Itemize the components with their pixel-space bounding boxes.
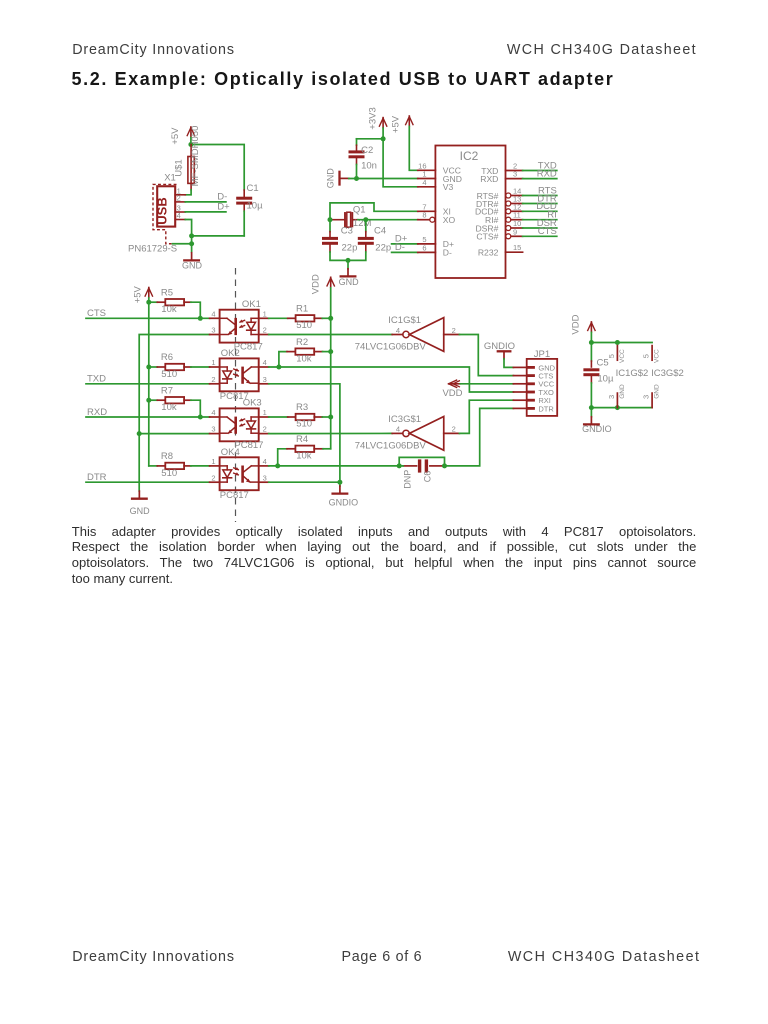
IC2 pin 15 R232 — [478, 243, 523, 257]
svg-text:3: 3 — [211, 326, 215, 335]
node junction — [615, 405, 620, 410]
wire OK3 k to IC3 in — [269, 432, 392, 434]
resistor R4 10k — [278, 434, 331, 466]
svg-text:4: 4 — [263, 457, 267, 466]
node junction GND stem — [346, 258, 351, 263]
node junction — [189, 233, 194, 238]
IC2 pin 4 V3 — [418, 178, 454, 192]
svg-text:8: 8 — [422, 211, 426, 220]
ground GND (near C2) — [325, 168, 349, 189]
node junction R7/RXD — [198, 415, 203, 420]
wire net D- — [392, 251, 418, 253]
svg-text:CTS: CTS — [538, 226, 557, 237]
svg-text:10k: 10k — [161, 402, 177, 413]
fuse U$1 MF-SMDH050 — [174, 126, 201, 190]
svg-text:GND: GND — [339, 277, 360, 287]
svg-text:2: 2 — [452, 425, 456, 434]
wire XO — [358, 219, 418, 221]
svg-text:R8: R8 — [161, 451, 173, 462]
node junction C6 left — [397, 463, 402, 468]
svg-text:2: 2 — [177, 194, 181, 203]
wire — [191, 145, 244, 191]
svg-text:Q1: Q1 — [353, 205, 366, 216]
IC2 pin 7 XI — [418, 202, 451, 216]
wire — [191, 366, 210, 368]
svg-text:V3: V3 — [443, 182, 454, 192]
ground GND (USB) — [182, 253, 203, 271]
optocoupler OK2 PC817 — [211, 348, 266, 402]
svg-text:5: 5 — [607, 354, 616, 358]
svg-text:74LVC1G06DBV: 74LVC1G06DBV — [355, 440, 427, 451]
svg-text:+3V3: +3V3 — [368, 107, 379, 129]
optocoupler OK3 PC817 — [211, 398, 266, 451]
wire — [356, 165, 358, 179]
wire — [399, 465, 403, 467]
svg-text:R1: R1 — [296, 304, 308, 315]
capacitor C2 10n — [349, 139, 377, 172]
svg-text:JP1: JP1 — [534, 349, 550, 360]
op-amp IC1G$1 74LVC1G06 inverter — [355, 315, 460, 353]
IC2 pin 2 TXD — [481, 162, 522, 176]
svg-text:C6: C6 — [422, 471, 432, 483]
wire — [191, 400, 200, 417]
svg-text:OK1: OK1 — [242, 299, 261, 310]
svg-text:3: 3 — [642, 395, 651, 399]
wire net TXD — [523, 170, 557, 172]
power +5V (USB) — [170, 127, 195, 145]
power VDD (C5) — [570, 314, 595, 334]
svg-text:2: 2 — [263, 425, 267, 434]
ground GNDIO (opto right) — [329, 486, 359, 508]
JP1 pin 5 RXI — [513, 399, 526, 401]
svg-text:510: 510 — [296, 320, 312, 331]
svg-text:GND: GND — [182, 260, 203, 270]
node junction — [189, 241, 194, 246]
node junction C4/XO — [363, 217, 368, 222]
svg-text:GND: GND — [325, 168, 335, 189]
svg-text:GNDIO: GNDIO — [329, 498, 359, 508]
resistor R8 510 — [149, 451, 191, 479]
capacitor C6 (DNP) — [403, 459, 444, 488]
optocoupler OK1 PC817 — [211, 299, 266, 353]
svg-text:10k: 10k — [296, 451, 312, 462]
svg-text:D+: D+ — [217, 202, 230, 213]
svg-text:22p: 22p — [342, 242, 358, 253]
resistor R7 10k — [149, 385, 191, 413]
svg-text:C3: C3 — [341, 225, 353, 236]
node junction — [589, 405, 594, 410]
svg-text:2: 2 — [211, 473, 215, 482]
wire IC1 out to JP1 CTS — [459, 335, 513, 376]
wire net RI — [523, 219, 557, 221]
svg-text:PC817: PC817 — [220, 490, 249, 501]
svg-text:4: 4 — [211, 408, 215, 417]
IC2 pin 13 DTR# — [476, 195, 523, 209]
svg-text:9: 9 — [513, 227, 517, 236]
svg-text:3: 3 — [607, 395, 616, 399]
capacitor C1 10u — [236, 183, 263, 211]
wire — [191, 465, 210, 467]
svg-text:VDD: VDD — [442, 388, 462, 399]
svg-text:GND: GND — [654, 384, 661, 399]
ground GND (crystal) — [339, 269, 360, 287]
svg-text:1: 1 — [263, 309, 267, 318]
svg-text:R3: R3 — [296, 402, 308, 413]
ground GNDIO (JP1) — [484, 341, 515, 359]
node junction C6 right — [442, 463, 447, 468]
svg-text:4: 4 — [422, 178, 426, 187]
wire net RTS — [523, 195, 557, 197]
resistor R5 10k — [149, 287, 191, 315]
op-amp U1 : IC2 CH340G box — [435, 146, 505, 279]
svg-text:+5V: +5V — [170, 127, 181, 145]
wire — [590, 383, 592, 408]
resistor R6 510 — [149, 352, 191, 380]
svg-text:VCC: VCC — [654, 349, 661, 363]
node junction R4/OK4 c — [275, 463, 280, 468]
svg-text:GND: GND — [619, 384, 626, 399]
svg-text:RXD: RXD — [480, 174, 498, 184]
wire — [590, 332, 592, 342]
node junction — [589, 340, 594, 345]
node junction rail — [146, 365, 151, 370]
svg-text:74LVC1G06DBV: 74LVC1G06DBV — [355, 342, 427, 353]
svg-text:22p: 22p — [375, 242, 391, 253]
svg-text:VDD: VDD — [570, 314, 581, 334]
svg-text:CTS#: CTS# — [476, 232, 498, 242]
wire — [269, 481, 340, 483]
op-amp IC1G$2 power pins — [607, 346, 648, 408]
isolation border (dashed) — [235, 268, 237, 522]
svg-text:4: 4 — [263, 358, 267, 367]
wire XI — [330, 203, 418, 220]
wire JP1 TXO to OK2 c — [269, 367, 514, 392]
wire VDD rail — [330, 288, 332, 449]
wire to OK4 c — [269, 465, 399, 467]
svg-text:+5V: +5V — [391, 115, 402, 133]
wire JP1 DTR — [445, 408, 514, 466]
svg-text:10n: 10n — [361, 161, 377, 172]
svg-text:IC2: IC2 — [460, 149, 479, 163]
wire net TXD — [86, 383, 210, 385]
svg-text:C2: C2 — [361, 145, 373, 156]
power +5V (IC2) — [391, 115, 413, 133]
svg-text:IC3G$1: IC3G$1 — [388, 414, 421, 425]
wire IC3 out to JP1 RXI — [459, 400, 513, 433]
svg-text:1: 1 — [211, 358, 215, 367]
wire GND rail — [139, 335, 209, 492]
wire (shield) — [173, 243, 192, 245]
svg-text:D-: D- — [443, 248, 452, 258]
svg-text:1: 1 — [263, 408, 267, 417]
JP1 pin 1 GND — [513, 366, 526, 368]
IC2 pin 8 XO — [418, 211, 456, 225]
wire net D- — [185, 201, 226, 203]
svg-text:DNP: DNP — [403, 470, 413, 489]
node junction R5/CTS — [198, 316, 203, 321]
resistor R1 510 — [269, 304, 331, 331]
JP1 pin 6 DTR — [513, 407, 526, 409]
wire net DTR — [86, 481, 210, 483]
svg-text:1: 1 — [211, 457, 215, 466]
JP1 pin 2 CTS — [513, 375, 526, 377]
svg-text:C4: C4 — [374, 225, 386, 236]
svg-text:6: 6 — [422, 243, 426, 252]
wire net D+ — [185, 211, 226, 213]
power +5V (opto left) — [133, 285, 153, 303]
wire net DTR — [523, 203, 557, 205]
svg-text:4: 4 — [211, 309, 215, 318]
wire net DSR — [523, 227, 557, 229]
IC2 pin 3 RXD — [480, 170, 522, 184]
wire — [330, 252, 366, 260]
svg-text:C1: C1 — [247, 183, 259, 194]
IC2 pin 9 CTS# — [476, 227, 522, 241]
node junction GNDIO/OK4 e — [337, 480, 342, 485]
wire — [357, 138, 384, 140]
wire — [192, 235, 245, 237]
svg-text:R2: R2 — [296, 337, 308, 348]
ground GNDIO (C5) — [582, 417, 612, 434]
wire net RXD — [86, 416, 210, 418]
svg-text:CTS: CTS — [87, 308, 106, 319]
svg-text:15: 15 — [513, 243, 521, 252]
optocoupler OK4 PC817 — [211, 447, 266, 501]
connector JP1 — [513, 349, 557, 416]
svg-text:IC1G$2: IC1G$2 — [616, 368, 649, 379]
wire V3 — [383, 128, 418, 187]
JP1 pin 3 VCC — [513, 383, 526, 385]
svg-text:DTR: DTR — [87, 472, 107, 483]
wire GNDIO rail — [269, 384, 340, 486]
wire GNDIO bottom — [591, 407, 652, 409]
svg-text:R4: R4 — [296, 434, 308, 445]
IC2 pin 14 RTS# — [477, 187, 523, 201]
wire net CTS — [86, 317, 210, 319]
svg-text:R7: R7 — [161, 385, 173, 396]
svg-text:USB: USB — [154, 197, 169, 224]
capacitor C3 22p — [322, 220, 357, 254]
svg-text:2: 2 — [263, 326, 267, 335]
capacitor C4 22p — [358, 220, 391, 254]
crystal Q1 12M — [330, 205, 371, 229]
svg-text:3: 3 — [263, 375, 267, 384]
op-amp IC3G$2 power pins — [642, 346, 684, 408]
IC2 pin 16 VCC — [418, 161, 461, 175]
svg-text:GND: GND — [130, 506, 151, 516]
USB connector X1 — [128, 172, 185, 254]
svg-text:10µ: 10µ — [247, 201, 264, 212]
resistor R3 510 — [269, 402, 331, 429]
svg-text:+5V: +5V — [133, 285, 144, 303]
wire — [139, 433, 209, 435]
svg-text:4: 4 — [396, 425, 400, 434]
svg-text:510: 510 — [161, 369, 177, 380]
svg-text:510: 510 — [296, 419, 312, 430]
capacitor C5 10u — [583, 343, 614, 385]
wire — [243, 211, 245, 236]
node junction GND rail/OK3 e — [137, 431, 142, 436]
wire — [347, 260, 349, 268]
svg-text:TXD: TXD — [87, 374, 106, 385]
node junction — [615, 340, 620, 345]
wire net CTS — [523, 235, 557, 237]
svg-text:R6: R6 — [161, 352, 173, 363]
svg-text:R5: R5 — [161, 287, 173, 298]
node junction R2/VDD — [328, 349, 333, 354]
node junction crystal/C3 — [328, 217, 333, 222]
wire VDD top — [591, 342, 652, 344]
wire +5V rail — [148, 298, 150, 466]
node junction rail — [146, 300, 151, 305]
node junction rail — [146, 398, 151, 403]
svg-text:OK4: OK4 — [221, 447, 240, 458]
wire net D+ — [392, 243, 418, 245]
node junction R2/OK2 c — [276, 365, 281, 370]
wire VDD to JP1 VCC — [460, 383, 513, 385]
svg-text:OK2: OK2 — [221, 348, 240, 359]
svg-text:VDD: VDD — [311, 274, 322, 294]
IC2 pin 11 RI# — [485, 211, 523, 225]
op-amp IC3G$1 74LVC1G06 inverter — [355, 414, 460, 452]
svg-text:XO: XO — [443, 215, 456, 225]
power +3V3 — [368, 107, 387, 129]
svg-text:2: 2 — [211, 375, 215, 384]
svg-text:10k: 10k — [296, 353, 312, 364]
svg-text:10k: 10k — [161, 304, 177, 315]
svg-text:OK3: OK3 — [243, 398, 262, 409]
svg-text:IC1G$1: IC1G$1 — [388, 315, 421, 326]
ground GND (opto left) — [130, 491, 151, 516]
IC2 pin 5 D+ — [418, 235, 454, 249]
svg-text:2: 2 — [452, 326, 456, 335]
wire GND to IC2 — [349, 178, 418, 180]
resistor R2 10k — [279, 337, 331, 367]
wire — [185, 190, 191, 195]
svg-text:4: 4 — [177, 211, 181, 220]
IC2 pin 6 D- — [418, 243, 452, 257]
node junction R3/VDD — [328, 415, 333, 420]
svg-text:X1: X1 — [164, 172, 176, 183]
wire VCC — [409, 127, 418, 171]
node junction R1/VDD — [328, 316, 333, 321]
power VDD (JP1) — [442, 380, 462, 399]
wire — [191, 302, 200, 318]
wire net DCD — [523, 210, 557, 212]
svg-text:10µ: 10µ — [597, 374, 614, 385]
power VDD (rail) — [311, 274, 335, 294]
wire OK1 k to IC1 in — [269, 334, 392, 336]
svg-text:RXD: RXD — [537, 168, 557, 179]
svg-text:R232: R232 — [478, 248, 499, 258]
JP1 pin 4 TXO — [513, 391, 526, 393]
svg-text:3: 3 — [513, 170, 517, 179]
IC2 pin 1 GND — [418, 170, 462, 184]
node junction +5V/fuse/C1 — [188, 142, 193, 147]
wire — [590, 408, 592, 417]
IC2 pin 12 DCD# — [475, 202, 523, 216]
svg-text:4: 4 — [396, 326, 400, 335]
wire GNDIO to JP1 — [504, 359, 513, 368]
node junction C2/GND — [354, 176, 359, 181]
svg-text:GNDIO: GNDIO — [582, 424, 612, 434]
wire C6 bypass — [399, 457, 444, 466]
svg-text:IC3G$2: IC3G$2 — [651, 368, 684, 379]
svg-text:510: 510 — [161, 468, 177, 479]
svg-text:RXD: RXD — [87, 407, 107, 418]
wire — [190, 138, 192, 145]
svg-text:VCC: VCC — [619, 349, 626, 363]
svg-text:MF-SMDH050: MF-SMDH050 — [190, 126, 201, 187]
svg-text:PN61729-S: PN61729-S — [128, 244, 177, 255]
svg-text:5: 5 — [642, 354, 651, 358]
wire — [185, 220, 191, 252]
node junction — [381, 136, 386, 141]
svg-text:D-: D- — [395, 242, 405, 253]
svg-text:DTR: DTR — [538, 404, 554, 413]
IC2 pin 10 DSR# — [475, 219, 522, 233]
svg-text:3: 3 — [263, 473, 267, 482]
svg-text:3: 3 — [211, 425, 215, 434]
wire net RXD — [523, 178, 557, 180]
